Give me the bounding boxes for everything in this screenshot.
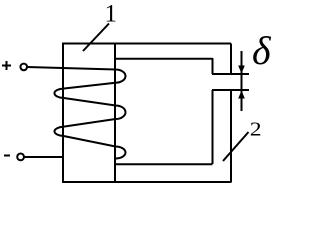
- yoke inner top line: [115, 58, 213, 60]
- minus wire: [24, 156, 63, 158]
- minus terminal circle: [17, 154, 24, 161]
- yoke outer right lower: [230, 90, 232, 182]
- wire top outer (shared top edge of core 1 and yoke top arm): [62, 43, 231, 45]
- leader line 1: [83, 24, 109, 52]
- gap bottom pole face: [212, 89, 249, 91]
- wire bottom outer (shared bottom edge of core and yoke bottom arm): [62, 181, 232, 183]
- minus sign: [4, 155, 10, 157]
- dimension line delta: [241, 51, 243, 111]
- leader line 2: [223, 132, 249, 161]
- svg-text:1: 1: [105, 1, 118, 28]
- gap top pole face: [212, 73, 249, 75]
- dimension arrow up: [238, 91, 245, 99]
- plus sign: [2, 61, 11, 70]
- svg-text:δ: δ: [252, 28, 272, 73]
- yoke outer right upper: [230, 44, 232, 75]
- core C1 left edge: [62, 43, 64, 184]
- coil winding: [27, 67, 126, 159]
- core C1 right edge: [114, 43, 116, 184]
- yoke inner bottom line: [115, 163, 213, 165]
- dimension arrow down: [238, 66, 245, 74]
- yoke pole inner step: [212, 58, 214, 74]
- plus terminal circle: [20, 64, 27, 71]
- yoke inner right edge: [212, 90, 214, 164]
- svg-text:2: 2: [250, 118, 262, 140]
